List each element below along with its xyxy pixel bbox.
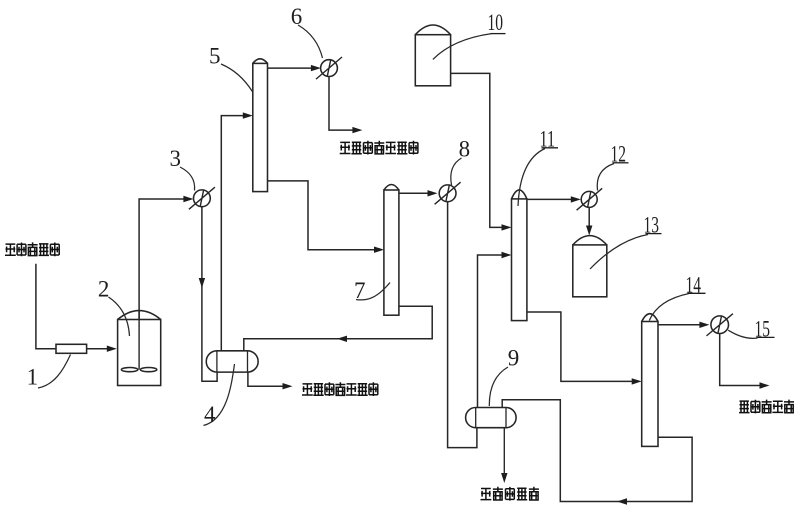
svg-text:8: 8 [459, 137, 471, 162]
svg-text:2: 2 [98, 276, 110, 301]
svg-text:11: 11 [540, 126, 556, 151]
svg-text:6: 6 [291, 4, 303, 29]
svg-text:4: 4 [204, 402, 216, 427]
svg-text:10: 10 [488, 10, 504, 35]
svg-text:15: 15 [755, 317, 771, 342]
svg-text:7: 7 [354, 278, 366, 303]
svg-text:13: 13 [644, 213, 660, 238]
svg-text:5: 5 [209, 43, 221, 68]
svg-text:14: 14 [686, 273, 702, 298]
svg-text:9: 9 [508, 346, 520, 371]
svg-text:1: 1 [27, 365, 38, 390]
svg-text:3: 3 [170, 146, 182, 171]
svg-text:12: 12 [611, 142, 627, 167]
